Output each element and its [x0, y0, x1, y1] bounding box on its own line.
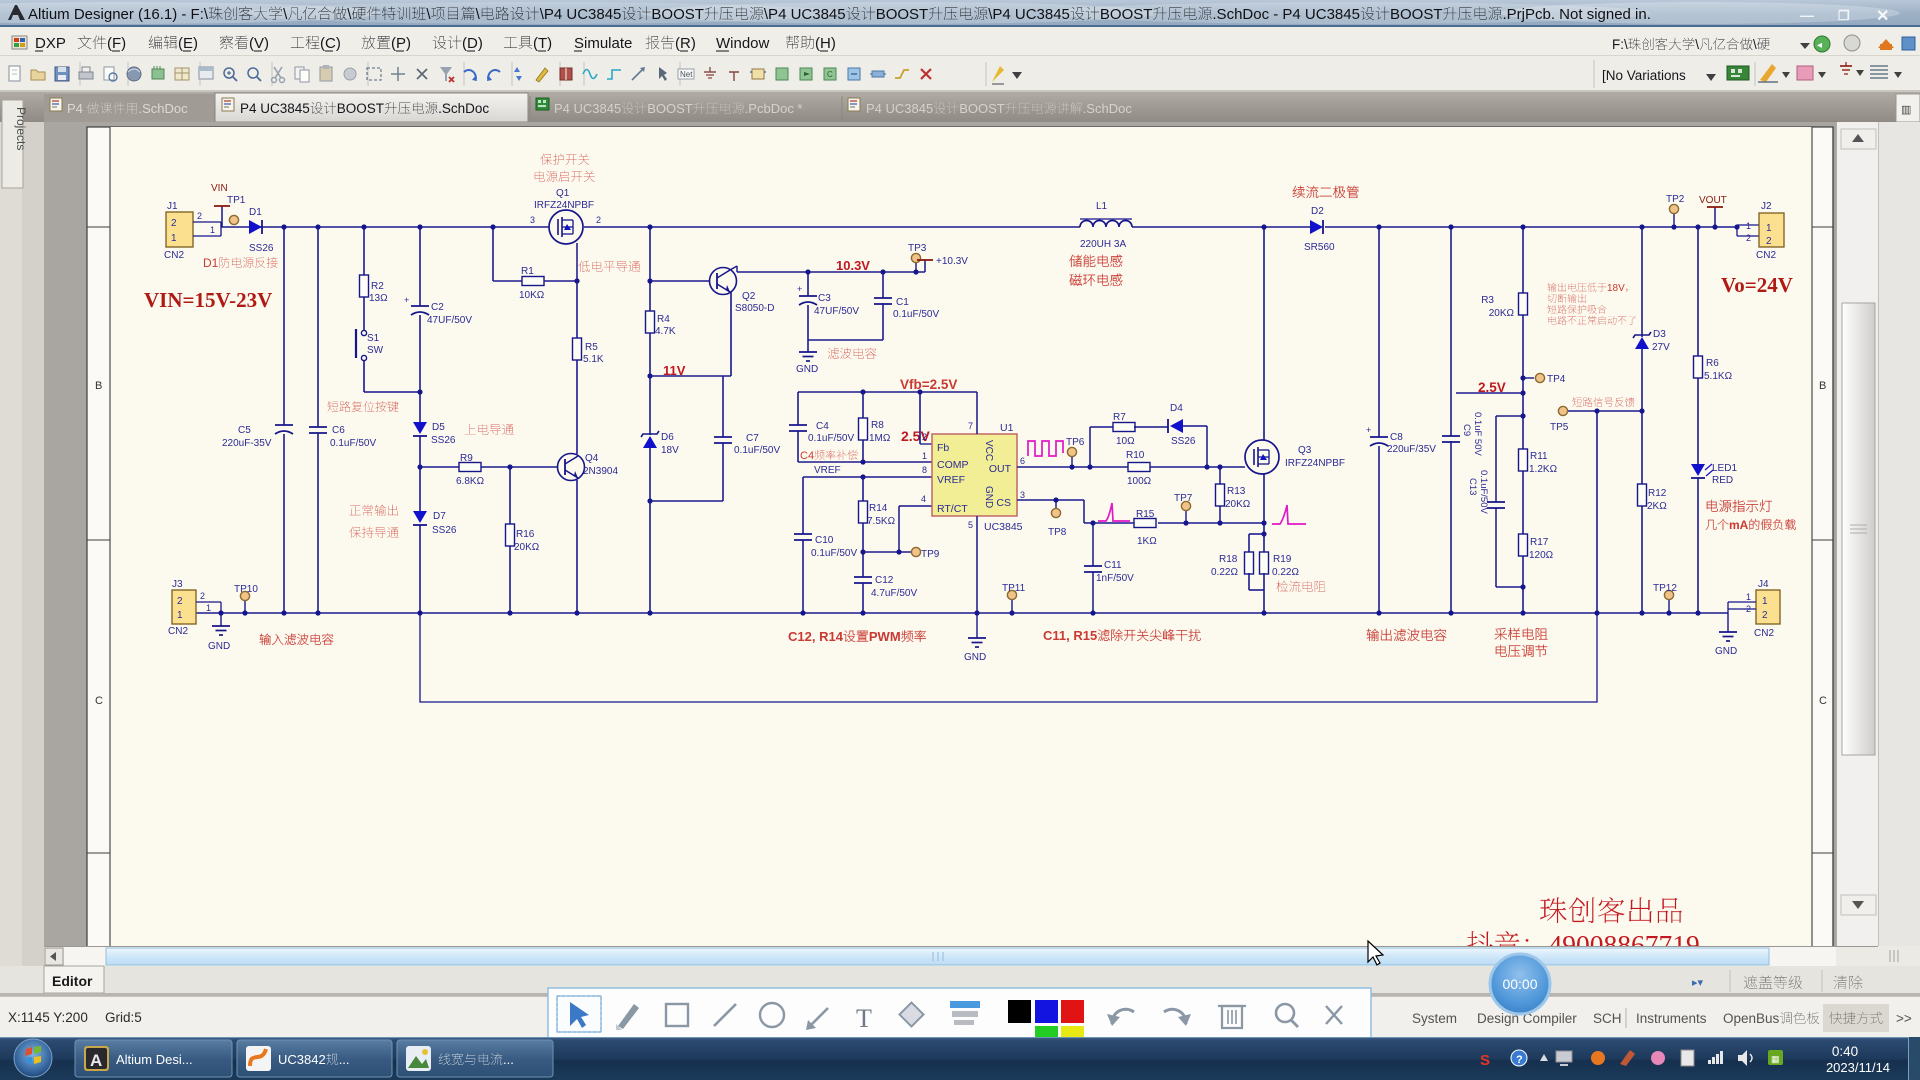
svg-text:R12: R12	[1648, 488, 1667, 499]
svg-text:C11, R15: C11, R15	[1043, 628, 1097, 643]
svg-text:Q1: Q1	[556, 188, 570, 199]
svg-text:SS26: SS26	[249, 243, 274, 254]
svg-text:0.1uF/50V: 0.1uF/50V	[734, 445, 780, 456]
svg-text:0.1uF/50V: 0.1uF/50V	[1478, 470, 1489, 514]
svg-text:1: 1	[177, 610, 183, 621]
svg-text:(V): (V)	[249, 35, 269, 52]
svg-text:Q4: Q4	[585, 453, 599, 464]
svg-text:3: 3	[530, 215, 535, 225]
svg-text:VREF: VREF	[814, 465, 841, 476]
svg-text:4.7K: 4.7K	[655, 326, 676, 337]
svg-text:VIN: VIN	[211, 183, 228, 194]
svg-text:P4 UC3845: P4 UC3845	[240, 101, 310, 116]
svg-text:R6: R6	[1706, 358, 1719, 369]
svg-text:Editor: Editor	[52, 973, 93, 989]
svg-text:R5: R5	[585, 342, 598, 353]
svg-text:3: 3	[1020, 490, 1025, 500]
svg-text:SR560: SR560	[1304, 242, 1335, 253]
svg-text:TP5: TP5	[1550, 422, 1569, 433]
svg-text:>>: >>	[1896, 1011, 1912, 1026]
svg-text:1: 1	[1746, 592, 1751, 602]
svg-text:\P4 UC3845: \P4 UC3845	[764, 6, 846, 23]
svg-text:J2: J2	[1761, 201, 1772, 212]
svg-text:+: +	[1366, 425, 1371, 435]
svg-text:P4 UC3845: P4 UC3845	[866, 101, 933, 116]
svg-text:Net: Net	[680, 70, 693, 79]
svg-text:CN2: CN2	[164, 250, 184, 261]
svg-text:0.1uF/50V: 0.1uF/50V	[808, 433, 854, 444]
svg-text:4: 4	[921, 494, 926, 504]
svg-text:47UF/50V: 47UF/50V	[814, 306, 859, 317]
svg-text:R13: R13	[1227, 486, 1246, 497]
svg-text:?: ?	[1516, 1054, 1523, 1066]
svg-text:❐: ❐	[1838, 8, 1850, 23]
svg-text:220UH 3A: 220UH 3A	[1080, 239, 1126, 250]
svg-text:Simulate: Simulate	[574, 35, 632, 52]
svg-text:7: 7	[968, 421, 973, 431]
svg-text:[No Variations: [No Variations	[1602, 68, 1686, 83]
svg-text:GND: GND	[964, 652, 986, 663]
svg-text:TP2: TP2	[1666, 194, 1685, 205]
svg-text:2: 2	[1762, 610, 1768, 621]
svg-text:VCC: VCC	[983, 440, 994, 461]
svg-text:1: 1	[206, 603, 211, 613]
svg-text:(E): (E)	[178, 35, 198, 52]
svg-text:(T): (T)	[533, 35, 552, 52]
svg-text:1: 1	[171, 233, 177, 244]
svg-text:.SchDoc: .SchDoc	[1083, 101, 1133, 116]
svg-text:C8: C8	[1390, 432, 1403, 443]
svg-text:TP7: TP7	[1174, 493, 1193, 504]
svg-text:2.5V: 2.5V	[1478, 380, 1506, 395]
svg-text:Instruments: Instruments	[1636, 1011, 1707, 1026]
svg-text:(F): (F)	[107, 35, 126, 52]
svg-text:C9: C9	[1461, 424, 1472, 436]
svg-text:GND: GND	[208, 641, 230, 652]
svg-text:BOOST: BOOST	[1100, 6, 1153, 23]
svg-text:BOOST: BOOST	[651, 6, 704, 23]
svg-text:P4: P4	[67, 101, 87, 116]
svg-text:R2: R2	[371, 281, 384, 292]
svg-text:S1: S1	[367, 333, 380, 344]
svg-text:CN2: CN2	[168, 626, 188, 637]
svg-text:(H): (H)	[815, 35, 836, 52]
svg-text:1: 1	[1746, 221, 1751, 231]
svg-text:1: 1	[1766, 223, 1772, 234]
svg-text:.SchDoc: .SchDoc	[139, 101, 189, 116]
svg-text:R8: R8	[871, 420, 884, 431]
svg-text:Altium Desi...: Altium Desi...	[116, 1052, 193, 1067]
svg-text:2: 2	[1766, 236, 1772, 247]
svg-text:.PcbDoc *: .PcbDoc *	[745, 101, 803, 116]
svg-text:1KΩ: 1KΩ	[1137, 536, 1157, 547]
svg-text:C: C	[1819, 695, 1827, 707]
svg-text:R19: R19	[1273, 554, 1292, 565]
svg-text:L1: L1	[1096, 201, 1108, 212]
svg-text:2: 2	[200, 591, 205, 601]
svg-text:—: —	[1800, 7, 1814, 23]
svg-text:TP1: TP1	[227, 195, 246, 206]
svg-text:.PrjPcb. Not signed in.: .PrjPcb. Not signed in.	[1503, 6, 1651, 23]
svg-text:18V: 18V	[661, 445, 679, 456]
svg-text:C13: C13	[1467, 478, 1478, 495]
svg-text:6.8KΩ: 6.8KΩ	[456, 476, 485, 487]
svg-text:Fb: Fb	[937, 442, 949, 454]
svg-text:TP9: TP9	[921, 549, 940, 560]
svg-text:Q2: Q2	[742, 291, 756, 302]
svg-text:.SchDoc: .SchDoc	[438, 101, 489, 116]
svg-text:BOOST: BOOST	[876, 6, 929, 23]
svg-text:F:\: F:\	[1612, 37, 1628, 52]
svg-text:R14: R14	[869, 503, 888, 514]
svg-text:R18: R18	[1219, 554, 1238, 565]
svg-text:2: 2	[177, 596, 183, 607]
svg-text:D5: D5	[432, 422, 445, 433]
svg-text:0.1uF/50V: 0.1uF/50V	[893, 309, 939, 320]
svg-text:TP3: TP3	[908, 243, 927, 254]
svg-text:2023/11/14: 2023/11/14	[1826, 1060, 1890, 1075]
svg-text:1: 1	[1762, 596, 1768, 607]
svg-text:SCH: SCH	[1593, 1011, 1622, 1026]
svg-text:UC3842: UC3842	[278, 1052, 326, 1067]
svg-text:R9: R9	[460, 453, 473, 464]
svg-text:X:1145 Y:200: X:1145 Y:200	[8, 1010, 88, 1025]
svg-text:S: S	[1480, 1052, 1490, 1069]
svg-text:D4: D4	[1170, 403, 1183, 414]
svg-text:J1: J1	[167, 201, 178, 212]
svg-text:GND: GND	[1715, 646, 1737, 657]
svg-text:2KΩ: 2KΩ	[1647, 501, 1667, 512]
svg-text:CS: CS	[996, 497, 1011, 509]
svg-text:D2: D2	[1311, 206, 1324, 217]
svg-text:BOOST: BOOST	[959, 101, 1005, 116]
svg-text:2: 2	[922, 432, 927, 442]
svg-text:Grid:5: Grid:5	[105, 1010, 142, 1025]
svg-text:R4: R4	[657, 314, 670, 325]
svg-text:5: 5	[968, 520, 973, 530]
svg-text:Altium Designer (16.1) - F:\: Altium Designer (16.1) - F:\	[28, 6, 209, 23]
svg-text:0.22Ω: 0.22Ω	[1272, 567, 1299, 578]
svg-text:DXP: DXP	[35, 35, 66, 52]
svg-text:1.2KΩ: 1.2KΩ	[1529, 464, 1558, 475]
svg-text:GND: GND	[983, 486, 994, 508]
svg-text:TP4: TP4	[1547, 374, 1566, 385]
svg-text:R15: R15	[1136, 509, 1155, 520]
svg-text:0.1uF 50V: 0.1uF 50V	[1472, 412, 1483, 456]
svg-text:\: \	[1753, 37, 1757, 52]
svg-text:10KΩ: 10KΩ	[519, 290, 545, 301]
svg-text:1MΩ: 1MΩ	[869, 433, 891, 444]
svg-text:U1: U1	[1000, 422, 1014, 434]
svg-text:CN2: CN2	[1754, 628, 1774, 639]
svg-text:...: ...	[339, 1052, 350, 1067]
svg-text:100Ω: 100Ω	[1127, 476, 1152, 487]
svg-text:13Ω: 13Ω	[369, 293, 388, 304]
svg-text:LED1: LED1	[1712, 463, 1737, 474]
svg-text:PWM: PWM	[869, 629, 901, 644]
svg-text:J3: J3	[172, 579, 183, 590]
svg-text:VREF: VREF	[937, 474, 965, 486]
svg-text:Q3: Q3	[1298, 445, 1312, 456]
svg-text:C6: C6	[332, 425, 345, 436]
svg-text:18V: 18V	[1607, 283, 1625, 294]
svg-text:Vfb=2.5V: Vfb=2.5V	[900, 377, 957, 392]
svg-text:RT/CT: RT/CT	[937, 503, 968, 515]
svg-text:C12: C12	[875, 575, 894, 586]
svg-text:CN2: CN2	[1756, 250, 1776, 261]
svg-text:C4: C4	[800, 450, 814, 462]
svg-text:C12, R14: C12, R14	[788, 629, 844, 644]
svg-text:VOUT: VOUT	[1699, 195, 1727, 206]
svg-text:4.7uF/50V: 4.7uF/50V	[871, 588, 917, 599]
svg-text:5.1KΩ: 5.1KΩ	[1704, 371, 1733, 382]
svg-text:0.22Ω: 0.22Ω	[1211, 567, 1238, 578]
svg-text:VIN=15V-23V: VIN=15V-23V	[144, 288, 272, 312]
svg-text:R10: R10	[1126, 450, 1145, 461]
svg-text:B: B	[1819, 380, 1826, 392]
svg-text:120Ω: 120Ω	[1529, 550, 1554, 561]
svg-text:A: A	[90, 1051, 102, 1070]
svg-text:Vo=24V: Vo=24V	[1721, 273, 1793, 297]
svg-text:RED: RED	[1712, 475, 1733, 486]
svg-text:C: C	[827, 70, 833, 79]
svg-text:R3: R3	[1481, 295, 1494, 306]
svg-text:SW: SW	[367, 345, 384, 356]
svg-text:20KΩ: 20KΩ	[1489, 308, 1515, 319]
svg-text:Projects: Projects	[14, 107, 28, 150]
svg-text:C2: C2	[431, 302, 444, 313]
svg-text:D1: D1	[203, 256, 219, 270]
svg-text:▦: ▦	[1771, 1054, 1780, 1064]
svg-text:(C): (C)	[320, 35, 341, 52]
svg-text:20KΩ: 20KΩ	[1225, 499, 1251, 510]
svg-text:1nF/50V: 1nF/50V	[1096, 573, 1134, 584]
svg-text:R1: R1	[521, 266, 534, 277]
svg-text:TP8: TP8	[1048, 527, 1067, 538]
svg-text:00:00: 00:00	[1502, 976, 1537, 992]
svg-text:P4 UC3845: P4 UC3845	[554, 101, 621, 116]
svg-text:220uF-35V: 220uF-35V	[222, 438, 272, 449]
svg-text:TP12: TP12	[1653, 583, 1677, 594]
svg-text:7.5KΩ: 7.5KΩ	[867, 516, 896, 527]
svg-text:2N3904: 2N3904	[583, 466, 618, 477]
svg-text:2: 2	[1746, 604, 1751, 614]
svg-text:2: 2	[197, 211, 202, 221]
svg-text:D6: D6	[661, 432, 674, 443]
svg-text:R11: R11	[1530, 451, 1548, 462]
svg-text:C10: C10	[815, 535, 834, 546]
svg-text:BOOST: BOOST	[1390, 6, 1443, 23]
svg-text:+: +	[404, 295, 409, 305]
svg-text:SS26: SS26	[431, 435, 456, 446]
svg-text:27V: 27V	[1652, 342, 1670, 353]
svg-text:▥: ▥	[1901, 104, 1911, 116]
svg-text:C3: C3	[818, 293, 831, 304]
svg-text:(D): (D)	[462, 35, 483, 52]
svg-text:C11: C11	[1104, 560, 1122, 571]
svg-text:Window: Window	[716, 35, 770, 52]
svg-text:10.3V: 10.3V	[836, 258, 870, 273]
svg-text:0.1uF/50V: 0.1uF/50V	[811, 548, 857, 559]
svg-text:B: B	[95, 380, 102, 392]
svg-text:1: 1	[210, 225, 215, 235]
svg-text:8: 8	[922, 465, 927, 475]
svg-text:TP10: TP10	[234, 584, 258, 595]
svg-text:C7: C7	[746, 433, 759, 444]
svg-text:C5: C5	[238, 425, 251, 436]
svg-text:20KΩ: 20KΩ	[514, 542, 540, 553]
svg-text:(P): (P)	[391, 35, 411, 52]
svg-text:0:40: 0:40	[1832, 1044, 1858, 1059]
svg-text:UC3845: UC3845	[984, 521, 1023, 533]
svg-text:R17: R17	[1530, 537, 1549, 548]
svg-text:0.1uF/50V: 0.1uF/50V	[330, 438, 376, 449]
svg-text:OpenBus: OpenBus	[1723, 1011, 1780, 1026]
svg-text:+: +	[797, 284, 802, 294]
svg-text:2: 2	[171, 218, 177, 229]
svg-text:5.1K: 5.1K	[583, 354, 604, 365]
svg-text:1: 1	[922, 451, 927, 461]
svg-text:mA: mA	[1729, 518, 1749, 532]
svg-text:COMP: COMP	[937, 459, 969, 471]
svg-text:D1: D1	[249, 207, 262, 218]
svg-text:SS26: SS26	[1171, 436, 1196, 447]
svg-text:47UF/50V: 47UF/50V	[427, 315, 472, 326]
svg-text:GND: GND	[796, 364, 818, 375]
svg-text:TP6: TP6	[1066, 437, 1085, 448]
svg-text:.SchDoc - P4 UC3845: .SchDoc - P4 UC3845	[1212, 6, 1360, 23]
svg-text:+10.3V: +10.3V	[936, 256, 968, 267]
svg-text:6: 6	[1020, 456, 1025, 466]
svg-text:2: 2	[596, 215, 601, 225]
svg-text:\P4 UC3845: \P4 UC3845	[988, 6, 1070, 23]
svg-text:R7: R7	[1113, 412, 1126, 423]
svg-text:BOOST: BOOST	[647, 101, 693, 116]
svg-text:10Ω: 10Ω	[1116, 436, 1135, 447]
svg-text:SS26: SS26	[432, 525, 457, 536]
svg-text:BOOST: BOOST	[337, 101, 384, 116]
svg-text:C1: C1	[896, 297, 909, 308]
svg-text:2: 2	[1746, 233, 1751, 243]
svg-text:\: \	[1695, 37, 1699, 52]
svg-text:✕: ✕	[1876, 8, 1889, 25]
svg-text:C: C	[95, 695, 103, 707]
svg-text:IRFZ24NPBF: IRFZ24NPBF	[534, 200, 594, 211]
svg-text:...: ...	[503, 1052, 514, 1067]
svg-text:IRFZ24NPBF: IRFZ24NPBF	[1285, 458, 1345, 469]
svg-text:S8050-D: S8050-D	[735, 303, 774, 314]
svg-text:\P4 UC3845: \P4 UC3845	[540, 6, 622, 23]
svg-text:R16: R16	[516, 529, 535, 540]
svg-text:D7: D7	[433, 511, 446, 522]
svg-text:OUT: OUT	[989, 463, 1012, 475]
svg-text:◂: ◂	[1817, 40, 1822, 51]
svg-text:System: System	[1412, 1011, 1457, 1026]
svg-text:TP11: TP11	[1002, 583, 1026, 594]
svg-text:T: T	[856, 1004, 872, 1033]
svg-text:▸▾: ▸▾	[1692, 977, 1704, 989]
svg-text:220uF/35V: 220uF/35V	[1387, 444, 1436, 455]
svg-text:(R): (R)	[675, 35, 696, 52]
svg-text:J4: J4	[1758, 579, 1769, 590]
svg-text:C4: C4	[816, 421, 829, 432]
svg-text:D3: D3	[1653, 329, 1666, 340]
